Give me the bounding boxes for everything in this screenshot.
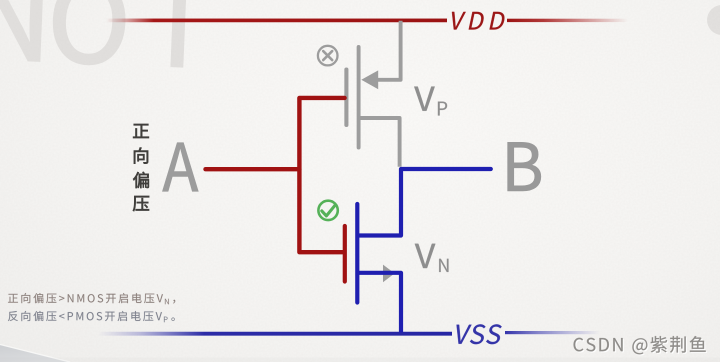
- node B label: [508, 142, 541, 190]
- VDD rail (left segment, fades in): [106, 19, 447, 23]
- wire Q1 source to node B: [359, 118, 400, 167]
- wire gate net vertical + branches (red): [299, 98, 344, 252]
- label VP: [414, 87, 447, 116]
- transistor Q1 PMOS arrow (points to channel): [361, 70, 378, 89]
- Q2 on indicator (circled check, green): [318, 201, 337, 220]
- wire node B to Q2 drain: [358, 169, 491, 236]
- transistor Q2 NMOS gate bar (red): [343, 226, 347, 282]
- node A label: [163, 143, 199, 191]
- VSS net label: [453, 324, 503, 344]
- paper corner fold bottom-left: [0, 345, 70, 362]
- caption line 1: forward bias > NMOS threshold: [8, 293, 175, 304]
- label VN: [415, 244, 449, 272]
- page watermark partial disc top-right: [707, 5, 720, 35]
- VDD rail (right segment, fades out): [507, 19, 628, 22]
- page watermark NOT: [0, 0, 210, 69]
- input annotation 正向偏压 (forward bias): [133, 124, 149, 211]
- paper bottom edge shade: [0, 358, 720, 362]
- VSS rail (left segment, fades in): [98, 332, 452, 336]
- transistor Q1 PMOS gate bar: [344, 70, 348, 126]
- transistor Q2 NMOS arrow (gray, under wire): [383, 265, 395, 283]
- wire Q2 source to VSS: [358, 273, 401, 333]
- wire node A to gate net (red): [206, 167, 300, 171]
- VDD net label: [448, 12, 506, 30]
- transistor Q2 NMOS channel line: [355, 204, 359, 303]
- watermark CSDN @紫荆鱼: [574, 336, 707, 355]
- transistor Q1 PMOS channel line: [357, 47, 361, 148]
- wire Q1 drain to VDD: [378, 21, 401, 80]
- Q1 off indicator (circled X): [318, 46, 338, 66]
- VSS rail (right segment, fades out): [505, 331, 600, 334]
- caption line 2: reverse bias < PMOS threshold: [8, 311, 175, 322]
